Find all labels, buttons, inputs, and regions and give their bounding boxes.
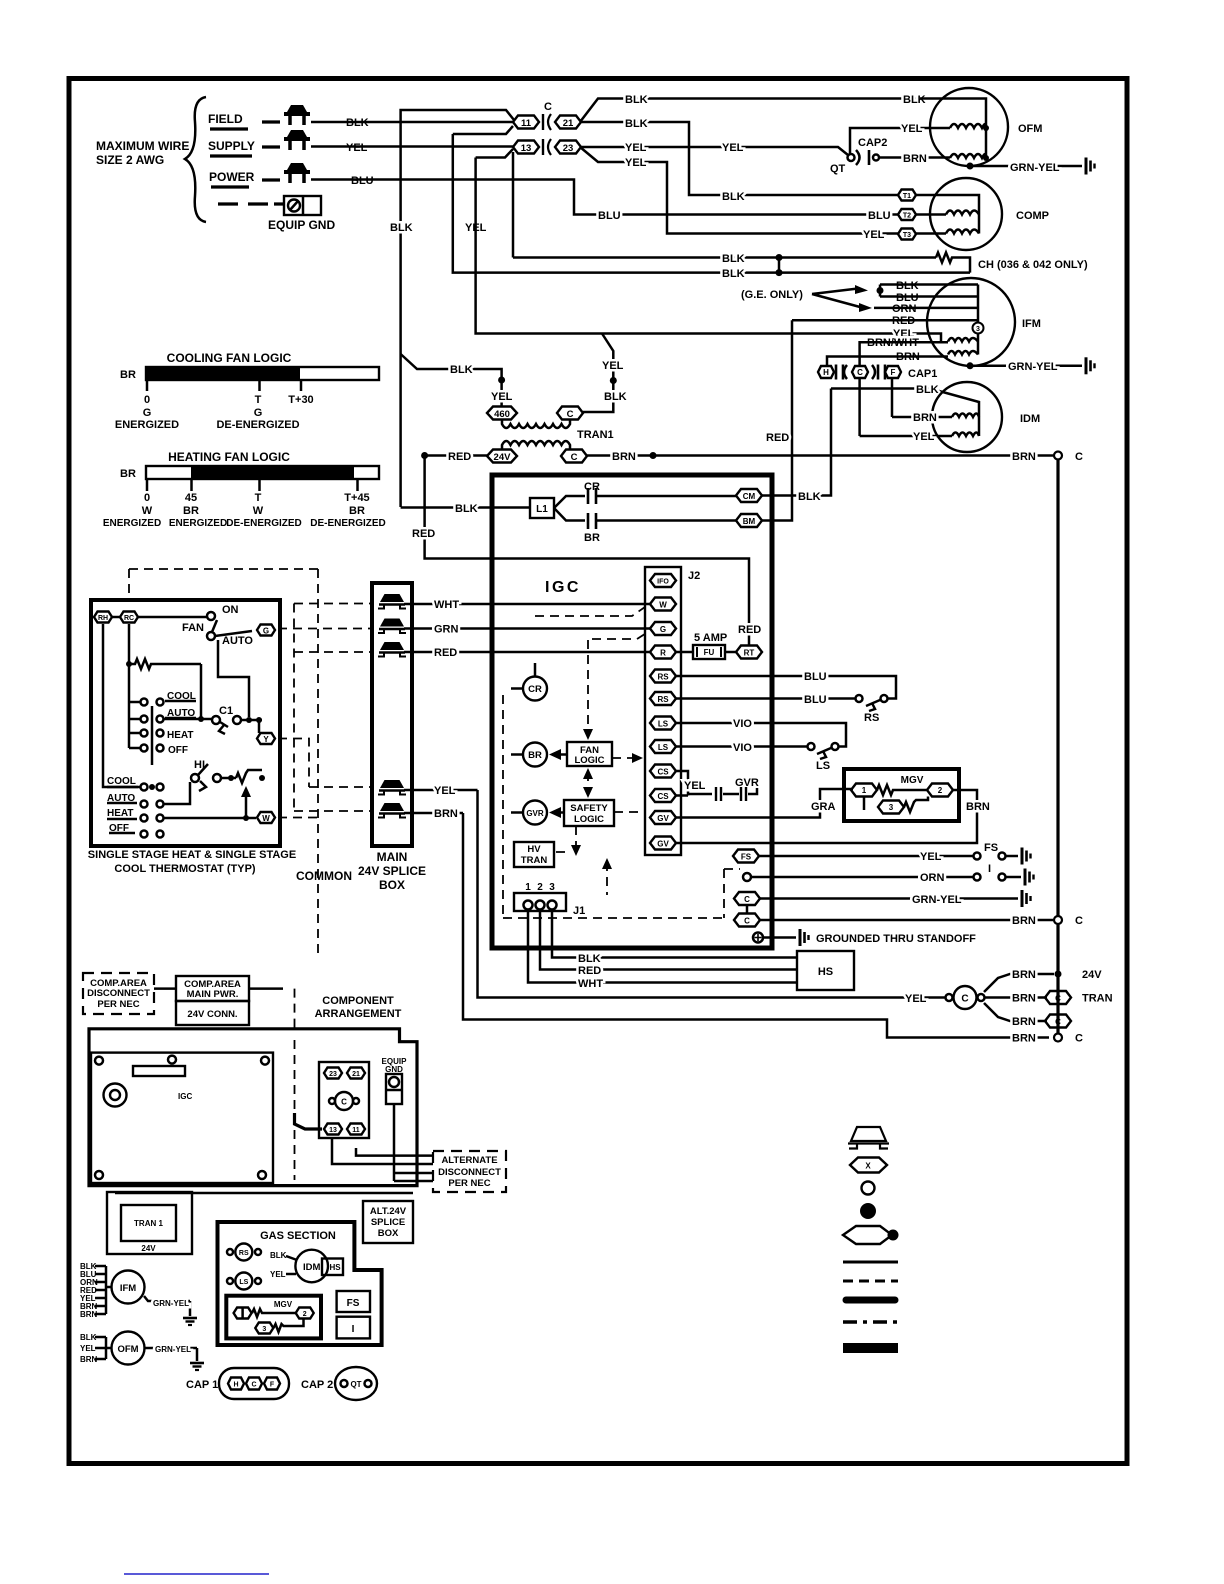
svg-text:2: 2 (537, 882, 543, 893)
svg-text:BR: BR (528, 750, 542, 761)
svg-text:QT: QT (350, 1380, 361, 1389)
svg-text:OFF: OFF (168, 745, 188, 756)
svg-text:I: I (988, 863, 991, 875)
wire BM to RED riser (762, 320, 792, 520)
svg-text:BR: BR (584, 532, 600, 544)
IDM motor circle (932, 382, 1002, 452)
gas valve MGV box (844, 769, 959, 821)
wire GV1 to MGV (676, 789, 853, 818)
svg-text:0: 0 (144, 492, 150, 504)
svg-text:X: X (865, 1162, 871, 1171)
wire BRN long bottom to node C (463, 813, 1049, 1038)
svg-text:C: C (1075, 915, 1083, 927)
svg-text:BR: BR (183, 505, 199, 517)
svg-text:FIELD: FIELD (208, 112, 243, 126)
svg-text:GRN: GRN (434, 624, 459, 636)
COMP winding 2 (946, 230, 979, 234)
wire FS YEL to switch and ground (759, 855, 973, 858)
svg-text:Y: Y (263, 735, 269, 744)
svg-text:PER NEC: PER NEC (97, 999, 139, 1010)
terminal RC (120, 612, 138, 623)
svg-text:COMP: COMP (1016, 210, 1049, 222)
svg-text:COMMON: COMMON (296, 869, 352, 883)
CAP1 risers (860, 379, 892, 437)
svg-text:21: 21 (563, 118, 574, 129)
svg-text:W: W (253, 505, 264, 517)
svg-text:IDM: IDM (303, 1262, 321, 1273)
svg-text:IFO: IFO (657, 579, 669, 586)
legend dashed line (843, 1280, 898, 1283)
terminal C grn-yel (734, 892, 760, 905)
wire YEL long to C circle (478, 790, 946, 998)
svg-text:C: C (744, 917, 750, 926)
svg-text:FU: FU (704, 648, 715, 657)
legend hexagon terminal (850, 1158, 887, 1173)
svg-text:WHT: WHT (434, 599, 459, 611)
arrow to W (164, 790, 246, 818)
svg-text:ENERGIZED: ENERGIZED (115, 419, 179, 431)
MGV coil 1 (851, 784, 877, 797)
wire BRN from C to right C terminal (587, 454, 1054, 457)
crankcase heater wire 2 (453, 134, 970, 273)
node C top right (1054, 452, 1062, 460)
splice WHT (378, 594, 406, 609)
contactor coil C (946, 994, 953, 1001)
svg-text:SIZE 2 AWG: SIZE 2 AWG (96, 153, 164, 167)
svg-text:C: C (544, 101, 552, 113)
fan logic box (567, 742, 612, 766)
wire RED vertical to IGC (425, 456, 749, 646)
svg-text:COMPONENT: COMPONENT (322, 995, 394, 1007)
svg-text:BLK: BLK (80, 1333, 97, 1342)
svg-text:(G.E. ONLY): (G.E. ONLY) (741, 289, 803, 301)
svg-text:LS: LS (816, 760, 830, 772)
brace (185, 97, 206, 222)
svg-text:BLK: BLK (450, 364, 473, 376)
relay coil GVR (523, 801, 547, 825)
svg-text:BR: BR (120, 369, 136, 381)
svg-text:BLK: BLK (722, 253, 745, 265)
svg-text:FAN: FAN (182, 622, 204, 634)
COMP internal wiring (916, 195, 979, 234)
svg-text:LS: LS (239, 1279, 248, 1286)
IFM GRN-YEL ground (967, 362, 974, 369)
wire 23 to QT yel (580, 147, 848, 155)
wire 23 to T3 (580, 147, 899, 234)
svg-text:FS: FS (984, 842, 998, 854)
J2 pin LS2 (650, 740, 676, 753)
svg-text:ENERGIZED: ENERGIZED (169, 518, 227, 529)
svg-text:CR: CR (528, 684, 542, 695)
wire to dashed drop (249, 987, 283, 990)
svg-text:YEL: YEL (270, 1270, 286, 1279)
splice GRN (378, 619, 406, 634)
svg-text:W: W (142, 505, 153, 517)
wire ORN to switch and ground (751, 876, 973, 879)
svg-text:VIO: VIO (733, 718, 752, 730)
J2 pin RS1 (650, 670, 676, 683)
svg-text:WHT: WHT (578, 978, 603, 990)
wire BLK branch to 460 (401, 354, 502, 407)
comp.area disconnect dashed box (83, 973, 154, 1014)
relay coil CR (523, 677, 547, 701)
heating bar (146, 466, 379, 479)
svg-text:BLK: BLK (722, 191, 745, 203)
legend heavy line (846, 1297, 895, 1304)
svg-text:DE-ENERGIZED: DE-ENERGIZED (216, 419, 299, 431)
svg-text:H: H (823, 368, 829, 377)
dashed links thermostat to splice (294, 603, 370, 605)
selector upper bank circles (129, 702, 140, 748)
svg-text:LOGIC: LOGIC (574, 814, 604, 825)
COMP motor circle (930, 178, 1002, 250)
wire YEL OFM row (850, 128, 950, 154)
svg-text:BLK: BLK (625, 118, 648, 130)
blue footer line (124, 1573, 269, 1575)
long right vertical wire (1056, 460, 1059, 1034)
svg-text:COOL THERMOSTAT (TYP): COOL THERMOSTAT (TYP) (114, 863, 255, 875)
svg-text:T1: T1 (903, 193, 911, 200)
relay coil BR (523, 743, 547, 767)
OFM winding 1 (950, 124, 986, 128)
IFM small grn-yel ground (144, 1296, 190, 1316)
svg-text:L1: L1 (536, 504, 548, 515)
svg-text:3: 3 (976, 326, 980, 333)
svg-text:CAP1: CAP1 (908, 368, 937, 380)
svg-text:11: 11 (521, 118, 532, 129)
J2 pin CS2 (650, 789, 676, 802)
svg-text:YEL: YEL (913, 431, 935, 443)
svg-text:BLK: BLK (625, 94, 648, 106)
svg-text:YEL: YEL (684, 780, 706, 792)
svg-text:BLU: BLU (804, 694, 827, 706)
terminal RH (94, 612, 112, 623)
FS box (337, 1291, 370, 1312)
HS box small (322, 1259, 343, 1276)
svg-text:GROUNDED THRU STANDOFF: GROUNDED THRU STANDOFF (816, 933, 976, 945)
svg-text:BLK: BLK (798, 491, 821, 503)
24V conn box (176, 1001, 249, 1025)
wire BRN to OFM (879, 156, 950, 159)
connector 21 (555, 116, 581, 129)
svg-text:C: C (1055, 1018, 1061, 1027)
svg-text:G: G (254, 407, 263, 419)
safety logic box (564, 800, 614, 826)
svg-text:W: W (262, 814, 270, 823)
svg-text:YEL: YEL (434, 785, 456, 797)
svg-text:T3: T3 (903, 232, 911, 239)
svg-text:F: F (270, 1382, 275, 1389)
MGV small resistor (252, 1309, 296, 1317)
crankcase heater wire 1 (513, 256, 936, 259)
wire BRN fan to 24V node (984, 974, 1054, 992)
svg-text:H: H (233, 1382, 238, 1389)
wire elbow to 13 (295, 1113, 323, 1129)
svg-text:GV: GV (657, 840, 669, 849)
svg-text:BLK: BLK (390, 222, 413, 234)
svg-text:C: C (1075, 1033, 1083, 1045)
IFM YEL wire (long from splice side) (476, 158, 941, 342)
svg-text:BRN: BRN (80, 1355, 98, 1364)
svg-text:HEAT: HEAT (107, 808, 133, 819)
wire GRN-YEL to ground (967, 163, 974, 170)
switch RS (881, 695, 888, 702)
J2 pin G (650, 622, 676, 635)
svg-text:RS: RS (657, 673, 669, 682)
OFM winding 2 (950, 154, 986, 158)
svg-text:GRN-YEL: GRN-YEL (912, 894, 962, 906)
splice YEL (378, 780, 406, 795)
svg-text:DE-ENERGIZED: DE-ENERGIZED (310, 518, 386, 529)
svg-text:YEL: YEL (905, 993, 927, 1005)
svg-text:BRN: BRN (1012, 451, 1036, 463)
capacitor CAP1 H (818, 366, 834, 378)
svg-text:T2: T2 (903, 213, 911, 220)
wire BLK vertical feeder to 11 (401, 110, 514, 507)
I box (337, 1317, 370, 1339)
terminal G hexagon (257, 625, 275, 636)
wires to alternate disconnect (332, 1138, 433, 1164)
svg-text:IFM: IFM (1022, 318, 1041, 330)
equip gnd dashes (218, 202, 283, 205)
svg-text:C: C (1055, 994, 1061, 1003)
svg-text:IGC: IGC (178, 1092, 192, 1101)
svg-text:SAFETY: SAFETY (570, 803, 608, 814)
terminal 23 (324, 1068, 342, 1079)
svg-text:TRAN: TRAN (521, 855, 548, 866)
J2 pin GV1 (650, 811, 676, 824)
svg-text:RED: RED (738, 624, 761, 636)
svg-text:OFM: OFM (117, 1344, 138, 1355)
svg-text:YEL: YEL (80, 1344, 96, 1353)
connector 11 (513, 116, 539, 129)
svg-text:11: 11 (352, 1127, 360, 1134)
svg-text:ARRANGEMENT: ARRANGEMENT (315, 1008, 402, 1020)
svg-text:MAXIMUM WIRE: MAXIMUM WIRE (96, 139, 189, 153)
svg-text:1: 1 (862, 786, 867, 795)
svg-text:45: 45 (185, 492, 197, 504)
terminal 460 (487, 407, 517, 420)
svg-text:RS: RS (657, 695, 669, 704)
svg-text:POWER: POWER (209, 170, 255, 184)
svg-text:GRN-YEL: GRN-YEL (1008, 361, 1058, 373)
svg-text:DISCONNECT: DISCONNECT (87, 988, 150, 999)
svg-text:RC: RC (124, 615, 134, 622)
svg-text:YEL: YEL (863, 229, 885, 241)
svg-text:GRN-YEL: GRN-YEL (155, 1345, 191, 1354)
svg-text:BLK: BLK (604, 391, 627, 403)
svg-text:CS: CS (657, 768, 669, 777)
svg-text:YEL: YEL (602, 360, 624, 372)
svg-text:13: 13 (521, 143, 532, 154)
svg-text:BRN: BRN (966, 801, 990, 813)
svg-text:24V: 24V (141, 1244, 156, 1253)
branch to TRAN1 C (583, 334, 613, 413)
svg-text:GND: GND (385, 1065, 403, 1074)
svg-text:HS: HS (329, 1263, 341, 1272)
svg-text:CAP 1: CAP 1 (186, 1379, 218, 1391)
comp.area main pwr box (176, 976, 249, 1001)
terminal T2 (898, 209, 916, 220)
svg-text:YEL: YEL (491, 391, 513, 403)
svg-text:BLU: BLU (804, 671, 827, 683)
svg-text:BLU: BLU (868, 210, 891, 222)
svg-text:CS: CS (657, 792, 669, 801)
switch RS (235, 1244, 252, 1261)
svg-text:RED: RED (578, 965, 601, 977)
svg-text:YEL: YEL (920, 851, 942, 863)
capacitor CAP1 F (885, 366, 901, 378)
legend open circle (862, 1182, 875, 1195)
svg-text:GRA: GRA (811, 801, 836, 813)
svg-text:OFM: OFM (1018, 123, 1042, 135)
equip gnd symbol (284, 196, 321, 215)
svg-text:C: C (341, 1098, 347, 1107)
wire 21 to top BLK (580, 99, 920, 123)
svg-text:ALTERNATE: ALTERNATE (441, 1155, 497, 1166)
svg-text:23: 23 (563, 143, 574, 154)
svg-text:3: 3 (262, 1326, 266, 1333)
svg-text:RT: RT (744, 649, 755, 658)
terminal T3 (898, 229, 916, 240)
svg-text:YEL: YEL (625, 142, 647, 154)
svg-text:CM: CM (743, 492, 756, 501)
svg-text:MAIN PWR.: MAIN PWR. (187, 989, 239, 1000)
svg-text:BLK: BLK (896, 280, 919, 292)
switch LS (832, 743, 839, 750)
svg-text:EQUIP GND: EQUIP GND (268, 218, 335, 232)
wire MGV BRN to GV2 (676, 790, 977, 843)
wire BRN to node C (760, 919, 1053, 922)
MGV coil 2 (927, 784, 953, 797)
grounded thru standoff (753, 933, 763, 943)
legend dash-dot line (843, 1320, 898, 1324)
svg-text:W: W (659, 601, 667, 610)
breaker between 13 and 23 (543, 139, 551, 155)
svg-text:BLK: BLK (916, 384, 939, 396)
svg-text:CH (036 & 042 ONLY): CH (036 & 042 ONLY) (978, 259, 1088, 271)
svg-text:BR: BR (120, 468, 136, 480)
splice BRN (378, 803, 406, 818)
svg-text:BOX: BOX (378, 1228, 399, 1239)
COMP winding 1 (946, 211, 979, 215)
svg-text:IFM: IFM (120, 1283, 136, 1294)
wire BRN fan to lower C (984, 1003, 1047, 1021)
svg-text:GRN-YEL: GRN-YEL (153, 1299, 189, 1308)
terminal BM (736, 514, 762, 527)
svg-text:ON: ON (222, 604, 239, 616)
svg-text:FS: FS (741, 853, 752, 862)
IGC panel (91, 1053, 273, 1183)
svg-text:G: G (660, 625, 666, 634)
MGV coil 3 (878, 801, 904, 814)
svg-text:BRN: BRN (913, 412, 937, 424)
terminal I circle (743, 873, 751, 881)
resistor CH (936, 253, 970, 273)
MGV small coil 2 (296, 1308, 314, 1319)
terminal T1 (898, 190, 916, 201)
svg-text:GRN-YEL: GRN-YEL (1010, 162, 1060, 174)
svg-text:RH: RH (98, 615, 108, 622)
svg-text:BRN: BRN (80, 1310, 98, 1319)
svg-text:BM: BM (743, 517, 756, 526)
svg-text:J2: J2 (688, 570, 700, 582)
J2 pin W (650, 598, 676, 611)
capacitor CR (554, 496, 585, 508)
fan switch ON/AUTO (138, 616, 207, 619)
svg-text:YEL: YEL (901, 123, 923, 135)
wire GRN-YEL to ground (760, 897, 1018, 900)
legend junction dot (860, 1203, 876, 1219)
svg-text:LOGIC: LOGIC (574, 755, 604, 766)
HS box (797, 951, 854, 990)
svg-text:SPLICE: SPLICE (371, 1217, 405, 1228)
wire BLK into L1 (401, 506, 530, 509)
svg-text:RED: RED (412, 528, 435, 540)
terminal C brn (734, 914, 760, 927)
C1 switch (164, 718, 212, 721)
svg-text:CAP 2: CAP 2 (301, 1379, 333, 1391)
svg-text:24V: 24V (494, 452, 512, 463)
terminal C (335, 1092, 353, 1110)
wire RS loop BLU (676, 676, 896, 699)
svg-text:GVR: GVR (526, 809, 544, 818)
svg-text:0: 0 (144, 394, 150, 406)
IFM windings (948, 338, 978, 342)
svg-text:BRN: BRN (903, 153, 927, 165)
terminal cluster box (319, 1062, 369, 1138)
J2 pin LS1 (650, 717, 676, 730)
svg-text:BRN: BRN (1012, 1016, 1036, 1028)
svg-text:RS: RS (864, 712, 879, 724)
svg-text:460: 460 (494, 409, 510, 420)
svg-text:24V: 24V (1082, 969, 1102, 981)
TRAN1 secondary coil (502, 441, 570, 449)
MGV small coil 3 (255, 1323, 273, 1334)
svg-text:RS: RS (239, 1250, 249, 1257)
MGV resistor (877, 785, 927, 795)
J2 pin R (650, 646, 676, 659)
svg-text:ORN: ORN (920, 872, 945, 884)
svg-text:BRN: BRN (434, 808, 458, 820)
svg-text:5 AMP: 5 AMP (694, 632, 727, 644)
terminal CM (736, 489, 762, 502)
wire CM BLK up (762, 389, 831, 496)
svg-text:24V SPLICE: 24V SPLICE (358, 864, 426, 878)
terminal FS (733, 850, 759, 863)
dashed logic network (502, 695, 504, 915)
svg-text:T+45: T+45 (344, 492, 369, 504)
OFM motor circle (930, 88, 1008, 166)
svg-text:SINGLE STAGE HEAT & SINGLE STA: SINGLE STAGE HEAT & SINGLE STAGE (88, 849, 296, 861)
terminal 13 (324, 1124, 342, 1135)
svg-text:TRAN: TRAN (1082, 993, 1113, 1005)
svg-text:HS: HS (818, 966, 833, 978)
J2 pin GV2 (650, 837, 676, 850)
svg-text:BLK: BLK (578, 953, 601, 965)
legend extra heavy line (843, 1343, 898, 1353)
svg-text:RED: RED (448, 451, 471, 463)
wire J1 pin2 RED to HS (540, 911, 797, 970)
J2 pin RS2 (650, 692, 676, 705)
IFM speed tap circle 3 (973, 323, 984, 334)
svg-text:YEL: YEL (722, 142, 744, 154)
svg-text:BLK: BLK (722, 268, 745, 280)
svg-text:BRN: BRN (1012, 969, 1036, 981)
legend splice nut (848, 1127, 889, 1149)
wire BRN fan to TRAN C (985, 996, 1047, 999)
capacitor CAP1 C (844, 365, 847, 379)
